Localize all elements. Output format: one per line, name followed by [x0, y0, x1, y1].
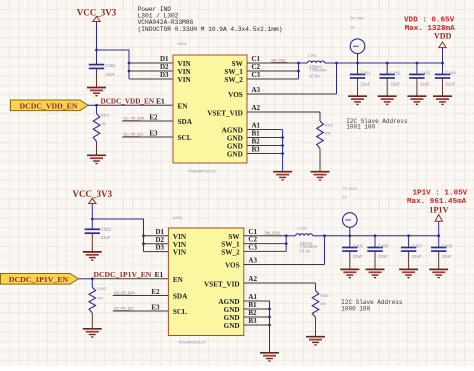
wire GND bus vertical (top) — [282, 130, 284, 172]
sheet entry port DCDC_1P1V_EN — [1, 274, 79, 285]
wire SW bus vertical (top) — [298, 63, 300, 79]
inductor L302 — [296, 234, 313, 236]
svg-text:R302: R302 — [325, 124, 334, 128]
svg-text:A3: A3 — [252, 86, 261, 94]
svg-text:C1: C1 — [248, 228, 257, 236]
wire SW node to L301 — [299, 62, 308, 64]
note: inductor part annotation — [138, 6, 283, 33]
svg-text:E1: E1 — [156, 96, 165, 105]
svg-text:B3: B3 — [248, 317, 257, 325]
svg-text:GND: GND — [224, 314, 240, 322]
wire SDA (bottom) — [113, 295, 169, 297]
wire VCC_3V3 to VIN bus (top) — [97, 50, 130, 79]
wire R302 to ground — [319, 149, 321, 172]
resistor R302 (VSET divider, top) — [317, 121, 324, 149]
junction at VCC cap (top) — [95, 49, 98, 52]
junction VIN bus D2 (bottom) — [142, 242, 145, 245]
wire EN net (top) — [88, 104, 97, 106]
svg-text:DCDC_1P1V_EN: DCDC_1P1V_EN — [9, 275, 69, 284]
wire EN net to pin E1 (bottom) — [92, 278, 168, 280]
wire C301 to ground — [96, 68, 98, 87]
wire R304 to ground — [315, 317, 317, 336]
wire SW_2 C3 (bottom) — [244, 250, 286, 252]
wire SW C1 (bottom) — [244, 235, 286, 237]
wire SCL (bottom) — [113, 310, 169, 312]
svg-text:E2: E2 — [151, 288, 160, 296]
svg-text:10.9A: 10.9A — [300, 248, 311, 253]
wire EN net (bottom) — [79, 278, 93, 280]
svg-text:C406: C406 — [378, 243, 389, 248]
svg-text:22uF: 22uF — [101, 235, 111, 240]
svg-text:22uF: 22uF — [412, 254, 422, 259]
power port VDD symbol — [434, 31, 452, 63]
svg-text:22uF: 22uF — [442, 254, 452, 259]
svg-text:1P1V : 1.05V: 1P1V : 1.05V — [413, 190, 468, 198]
svg-text:C404: C404 — [446, 70, 457, 75]
ground under C408 — [429, 269, 448, 277]
junction VIN bus D2 (top) — [128, 70, 131, 73]
capacitor C406 (1P1V output) — [367, 248, 382, 252]
ground under C401 — [348, 96, 367, 104]
wire VIN D3 (top) — [129, 78, 173, 80]
wire A3 vertical to rail (bottom) — [324, 236, 326, 265]
svg-text:VSET_VID: VSET_VID — [207, 110, 243, 118]
svg-text:B3: B3 — [252, 146, 261, 154]
svg-text:7.0mohm: 7.0mohm — [309, 68, 327, 73]
wire rail to C407 — [408, 236, 410, 248]
junction VIN bus D1 (bottom) — [142, 234, 145, 237]
resistor R303 (EN pulldown, bottom) — [89, 287, 96, 313]
svg-text:A1: A1 — [252, 122, 261, 130]
svg-text:VIN: VIN — [173, 233, 187, 241]
svg-text:C2: C2 — [252, 63, 261, 71]
svg-text:VOS: VOS — [228, 91, 243, 99]
junction GND B1 (top) — [281, 136, 284, 139]
wire rail to C405 — [349, 236, 351, 248]
capacitor C402 (VDD output) — [380, 74, 395, 78]
svg-text:E3: E3 — [151, 303, 160, 311]
wire SW bus vertical (bottom) — [285, 236, 287, 252]
label C302 value — [101, 227, 112, 240]
svg-text:EN: EN — [178, 103, 189, 111]
label C407 value — [412, 243, 423, 259]
wire SW_1 C2 (top) — [247, 70, 299, 72]
svg-text:A2: A2 — [248, 275, 257, 283]
wire rail to C406 — [374, 236, 376, 248]
resistor R301 (EN pulldown, top) — [93, 114, 100, 142]
wire VCC_3V3 to VIN bus (bottom) — [92, 219, 143, 252]
svg-text:GND: GND — [227, 151, 243, 159]
wire GND B1 (top) — [247, 137, 283, 139]
svg-text:22uF: 22uF — [353, 254, 363, 259]
svg-text:B2: B2 — [252, 138, 261, 146]
label C401 value — [361, 70, 372, 86]
wire SW C1 (top) — [247, 62, 299, 64]
capacitor C401 (VDD output) — [350, 74, 365, 78]
sheet entry port DCDC_VDD_EN — [11, 100, 89, 111]
svg-text:1000 100: 1000 100 — [341, 306, 370, 313]
net label on SDA wire (bottom) — [114, 291, 135, 295]
wire C408 to ground — [438, 251, 440, 269]
wire VSET_VID A2 (top) — [247, 111, 320, 113]
svg-text:B2: B2 — [248, 309, 257, 317]
ground under C407 — [399, 269, 418, 277]
power port VCC_3V3 symbol bottom — [73, 189, 113, 219]
wire C302 to ground — [91, 233, 93, 252]
test point TP_1P1V — [343, 187, 358, 236]
ground under C301 — [87, 88, 106, 96]
svg-text:U302: U302 — [173, 216, 182, 220]
svg-text:22uF: 22uF — [390, 81, 400, 86]
svg-text:(INDUCTOR 0.33UH M 10.9A 4.3x4: (INDUCTOR 0.33UH M 10.9A 4.3x4.5x2.1mm) — [138, 26, 283, 33]
pin names U302 left side — [173, 233, 188, 316]
svg-text:B1: B1 — [252, 130, 261, 138]
note: I2C slave address (top) — [346, 118, 408, 131]
pin names U301 left side — [178, 60, 193, 142]
svg-text:DCDC_1P1V_EN: DCDC_1P1V_EN — [94, 270, 152, 279]
test point TP_VDD — [350, 17, 365, 63]
capacitor C407 (1P1V output) — [401, 248, 416, 252]
svg-text:C405: C405 — [353, 243, 364, 248]
net label on SW wire (top) — [271, 58, 288, 62]
svg-text:22uF: 22uF — [378, 254, 388, 259]
svg-text:SW: SW — [228, 233, 240, 241]
ground under C406 — [366, 269, 385, 277]
svg-text:SCL: SCL — [173, 308, 187, 316]
wire 1P1V output rail (bottom) — [313, 235, 439, 237]
svg-text:1M: 1M — [98, 297, 103, 301]
wire R303 to ground — [91, 313, 93, 329]
junction rail C406 — [374, 234, 377, 237]
label C402 value — [390, 70, 401, 86]
svg-text:E1: E1 — [155, 270, 164, 279]
wire VIN D3 (bottom) — [144, 251, 169, 253]
junction GND B3 (top) — [281, 152, 284, 155]
svg-text:20k: 20k — [325, 132, 331, 136]
svg-text:C408: C408 — [442, 243, 453, 248]
svg-text:Max. 961.45mA: Max. 961.45mA — [407, 198, 467, 206]
ground under C404 — [433, 96, 452, 104]
svg-text:SW_2: SW_2 — [221, 248, 240, 256]
value label L301 — [309, 64, 327, 78]
svg-text:SW: SW — [232, 60, 244, 68]
wire C406 to ground — [374, 251, 376, 269]
ground under C402 — [378, 96, 397, 104]
svg-text:D3: D3 — [160, 71, 169, 79]
svg-text:AGND: AGND — [218, 298, 239, 306]
label C403 value — [420, 70, 431, 86]
svg-text:C403: C403 — [420, 70, 431, 75]
junction L302 out / VOS (bottom) — [323, 234, 326, 237]
capacitor C404 (VDD output) — [435, 74, 450, 78]
svg-text:I2C_PD_SCL: I2C_PD_SCL — [124, 133, 144, 137]
junction SW C2 (bottom) — [285, 242, 288, 245]
spec text VDD rail — [404, 16, 455, 33]
svg-text:SW_2: SW_2 — [224, 76, 243, 84]
resistor R304 (VSET divider, bottom) — [312, 291, 319, 318]
svg-text:22uF: 22uF — [446, 81, 456, 86]
junction rail C407 — [407, 234, 410, 237]
net label on SDA wire (top) — [124, 117, 145, 121]
wire VIN D1 (bottom) — [144, 235, 169, 237]
junction rail TP_1P1V — [348, 234, 351, 237]
svg-text:TP: TP — [343, 196, 348, 200]
svg-text:C302: C302 — [101, 227, 112, 232]
svg-text:SW_1: SW_1 — [224, 68, 243, 76]
junction GND B3 (bottom) — [268, 324, 271, 327]
wire SCL (top) — [122, 136, 173, 138]
spec text 1P1V rail — [407, 190, 468, 207]
junction rail C402 — [386, 62, 389, 65]
label C405 value — [353, 243, 364, 259]
wire EN net to pin E1 (top) — [97, 104, 174, 106]
junction rail C403 — [416, 62, 419, 65]
svg-text:DCDC_VDD_EN: DCDC_VDD_EN — [101, 97, 155, 105]
wire C403 to ground — [416, 78, 418, 96]
svg-text:C1: C1 — [252, 55, 261, 63]
pin names U301 right side — [207, 60, 243, 159]
wire EN junction to resistor R301 — [96, 105, 98, 113]
junction SW C1 (top) — [297, 62, 300, 65]
wire C402 to ground — [386, 78, 388, 96]
wire GND B1 (bottom) — [244, 308, 270, 310]
svg-text:D3: D3 — [155, 244, 164, 252]
wire GND bus vertical (bottom) — [269, 301, 271, 353]
wire A3 vertical to rail (top) — [336, 63, 338, 94]
svg-text:1P1V: 1P1V — [429, 206, 448, 215]
IC U301 TPS62840 regulator (top) — [173, 55, 247, 163]
wire VIN D1 (top) — [129, 62, 173, 64]
svg-text:22uF: 22uF — [106, 72, 116, 77]
wire VOS A3 (bottom) — [244, 264, 325, 266]
svg-text:I2C_PD_SDA: I2C_PD_SDA — [124, 117, 145, 121]
wire VCC junction to capacitor C301 (top) — [96, 50, 98, 65]
ground under R304 — [306, 337, 325, 345]
net label on SW wire (bottom) — [265, 231, 282, 235]
svg-text:22uF: 22uF — [420, 81, 430, 86]
junction at VCC cap (bottom) — [91, 218, 94, 221]
value label L302 — [300, 241, 318, 253]
svg-text:C2: C2 — [248, 236, 257, 244]
svg-text:SW_1P1V: SW_1P1V — [265, 231, 281, 235]
label C301 value — [106, 63, 117, 77]
wire GND B3 (top) — [247, 153, 283, 155]
svg-text:TPS62840A2DLCR: TPS62840A2DLCR — [178, 340, 206, 344]
label C404 value — [446, 70, 457, 86]
junction L301 out / VOS (top) — [335, 62, 338, 65]
label C406 value — [378, 243, 389, 259]
junction EN at R301 (top) — [95, 104, 98, 107]
svg-text:AGND: AGND — [222, 127, 243, 135]
wire GND B2 (top) — [247, 145, 283, 147]
svg-text:L302: L302 — [298, 226, 308, 231]
capacitor C302 (bottom input cap) — [85, 229, 100, 233]
svg-text:SDA: SDA — [178, 118, 193, 126]
svg-text:B1: B1 — [248, 301, 257, 309]
wire GND B2 (bottom) — [244, 316, 270, 318]
svg-text:VSET_VID: VSET_VID — [204, 281, 240, 289]
svg-text:D1: D1 — [155, 228, 164, 236]
power port VCC_3V3 symbol — [77, 7, 117, 50]
svg-text:D2: D2 — [155, 236, 164, 244]
svg-text:R301: R301 — [101, 114, 110, 118]
wire C407 to ground — [408, 251, 410, 269]
wire C401 to ground — [357, 78, 359, 96]
junction SW C1 (bottom) — [285, 234, 288, 237]
capacitor C405 (1P1V output) — [342, 248, 357, 252]
svg-text:E2: E2 — [149, 113, 158, 121]
svg-text:VIN: VIN — [173, 241, 187, 249]
svg-text:SCL: SCL — [178, 134, 192, 142]
svg-text:VIN: VIN — [178, 76, 192, 84]
wire SW_2 C3 (top) — [247, 78, 299, 80]
wire rail to C403 — [416, 63, 418, 74]
label R303 value — [98, 287, 107, 301]
note: I2C slave address (bottom) — [341, 299, 403, 313]
junction rail C404 — [441, 62, 444, 65]
svg-text:Max. 1328mA: Max. 1328mA — [405, 25, 456, 33]
svg-text:A3: A3 — [248, 257, 257, 265]
svg-text:R303: R303 — [98, 287, 107, 291]
wire C404 to ground — [442, 78, 444, 96]
svg-text:GND: GND — [227, 143, 243, 151]
wire rail to C404 — [442, 63, 444, 74]
capacitor C403 (VDD output) — [409, 74, 424, 78]
svg-text:VIN: VIN — [178, 60, 192, 68]
wire VIN D2 (top) — [129, 70, 173, 72]
wire SDA (top) — [122, 120, 173, 122]
wire rail to C408 — [438, 236, 440, 248]
svg-text:1001 100: 1001 100 — [346, 124, 375, 131]
svg-text:SW_1: SW_1 — [221, 241, 240, 249]
svg-text:L301: L301 — [308, 52, 318, 57]
svg-text:VCC_3V3: VCC_3V3 — [77, 7, 117, 17]
junction EN at R303 (bottom) — [91, 277, 94, 280]
power port 1P1V symbol — [429, 206, 448, 236]
svg-text:C407: C407 — [412, 243, 423, 248]
svg-text:TP_1P1V: TP_1P1V — [343, 187, 358, 191]
wire rail to C402 — [386, 63, 388, 74]
svg-text:E3: E3 — [149, 129, 158, 137]
label R302 value — [325, 124, 334, 136]
wire VOS A3 (top) — [247, 93, 337, 95]
wire VIN D2 (bottom) — [144, 243, 169, 245]
ground under C405 — [340, 269, 359, 277]
svg-text:GND: GND — [227, 135, 243, 143]
svg-text:1M: 1M — [101, 122, 106, 126]
junction rail TP_VDD — [356, 62, 359, 65]
svg-text:VOS: VOS — [225, 262, 240, 270]
svg-text:C3: C3 — [252, 71, 261, 79]
IC U302 TPS62840 regulator (bottom) — [168, 228, 243, 336]
svg-text:TP: TP — [350, 26, 355, 30]
wire C405 to ground — [349, 251, 351, 269]
capacitor C408 (1P1V output) — [431, 248, 446, 252]
junction rail C408 — [437, 234, 440, 237]
svg-text:D1: D1 — [160, 55, 169, 63]
wire R301 to ground — [96, 142, 98, 156]
svg-text:C401: C401 — [361, 70, 372, 75]
pin names U302 right side — [204, 233, 240, 330]
wire SW node to L302 — [286, 235, 295, 237]
ground under GND bus (bottom) — [260, 353, 279, 361]
svg-text:VIN: VIN — [173, 249, 187, 257]
ground under R303 — [83, 329, 102, 337]
wire AGND A1 (top) — [247, 129, 283, 131]
wire AGND A1 (bottom) — [244, 300, 270, 302]
ground under C302 — [83, 252, 102, 260]
svg-text:20k: 20k — [320, 302, 326, 306]
inductor L301 — [308, 61, 325, 63]
svg-text:VIN: VIN — [178, 68, 192, 76]
svg-text:GND: GND — [224, 322, 240, 330]
wire EN junction to resistor R303 — [91, 279, 93, 288]
svg-text:C3: C3 — [248, 243, 257, 251]
capacitor C301 (top input cap) — [89, 65, 104, 69]
ground under GND bus (top) — [273, 172, 292, 180]
wire A2 to resistor R304 (bottom) — [315, 283, 317, 291]
svg-text:C301: C301 — [106, 63, 117, 68]
svg-text:22uF: 22uF — [361, 81, 371, 86]
svg-text:I2C_PD_SDA: I2C_PD_SDA — [114, 291, 135, 295]
ground under R301 — [87, 155, 106, 163]
wire A2 to resistor R302 (top) — [319, 112, 321, 121]
wire SW_1 C2 (bottom) — [244, 243, 286, 245]
wire rail to C401 — [357, 63, 359, 74]
svg-text:GND: GND — [224, 306, 240, 314]
label C408 value — [442, 243, 453, 259]
svg-text:A2: A2 — [252, 104, 261, 112]
wire GND B3 (bottom) — [244, 324, 270, 326]
ground under C403 — [407, 96, 426, 104]
ground under R302 — [311, 172, 330, 180]
net label on SCL wire (top) — [124, 133, 144, 137]
junction GND B2 (top) — [281, 144, 284, 147]
junction SW C2 (top) — [297, 70, 300, 73]
wire VSET_VID A2 (bottom) — [244, 282, 316, 284]
svg-text:I2C_PD_SCL: I2C_PD_SCL — [114, 307, 134, 311]
label R301 value — [101, 114, 110, 127]
junction GND B2 (bottom) — [268, 316, 271, 319]
svg-text:TP_VDD: TP_VDD — [350, 17, 364, 21]
svg-text:SW_VDD: SW_VDD — [271, 58, 286, 62]
svg-text:U301: U301 — [178, 42, 187, 46]
svg-text:R304: R304 — [320, 294, 329, 298]
svg-text:TPS62840A1DLCR: TPS62840A1DLCR — [188, 169, 216, 173]
svg-text:EN: EN — [173, 276, 184, 284]
svg-text:VCC_3V3: VCC_3V3 — [73, 189, 113, 199]
net label on SCL wire (bottom) — [114, 307, 134, 311]
svg-text:10.9A: 10.9A — [309, 74, 320, 79]
svg-text:D2: D2 — [160, 63, 169, 71]
svg-text:A1: A1 — [248, 293, 257, 301]
junction VIN bus D1 (top) — [128, 62, 131, 65]
label R304 value — [320, 294, 329, 306]
svg-text:SDA: SDA — [173, 293, 188, 301]
svg-text:DCDC_VDD_EN: DCDC_VDD_EN — [19, 101, 77, 110]
svg-text:VDD : 0.65V: VDD : 0.65V — [404, 16, 455, 24]
svg-text:C402: C402 — [390, 70, 401, 75]
wire VDD output rail (top) — [325, 62, 443, 64]
junction GND B1 (bottom) — [268, 308, 271, 311]
wire VCC junction to capacitor C302 (bottom) — [91, 219, 93, 229]
